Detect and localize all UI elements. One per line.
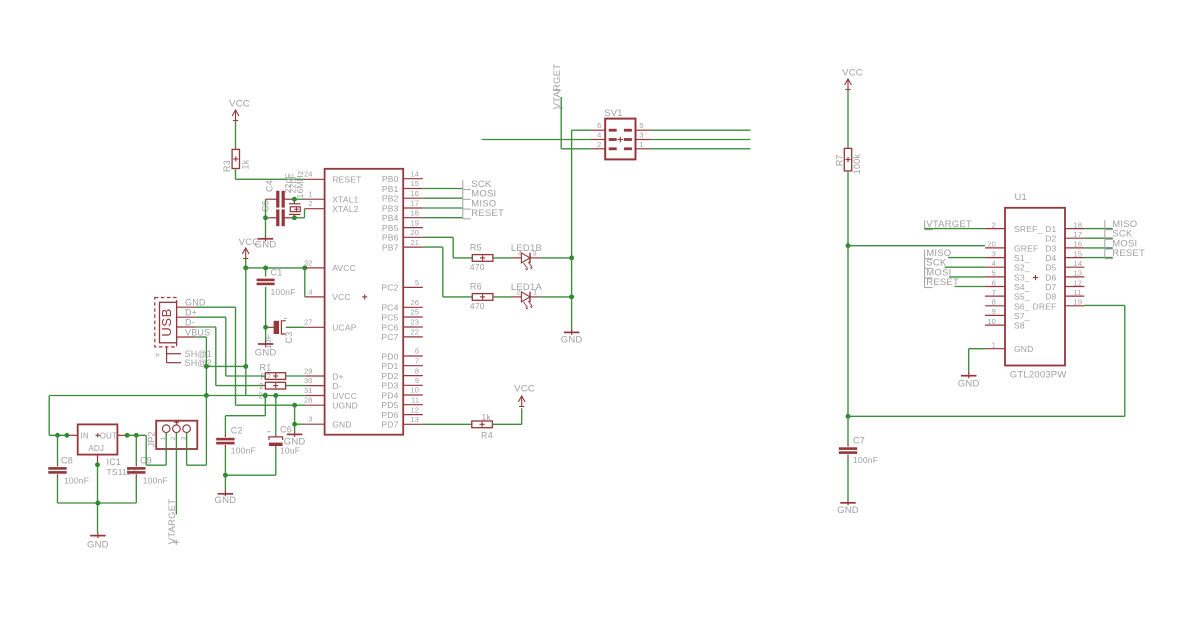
svg-text:RESET: RESET — [332, 175, 361, 185]
wire UGND row — [236, 404, 306, 406]
svg-text:USB: USB — [159, 308, 174, 337]
svg-text:S4_: S4_ — [1014, 282, 1030, 292]
svg-text:GND: GND — [255, 347, 277, 358]
svg-text:12: 12 — [1074, 278, 1083, 287]
wire SV1 pin4 row — [482, 139, 591, 141]
svg-text:21: 21 — [410, 238, 419, 247]
svg-text:3: 3 — [533, 250, 537, 257]
svg-text:IC1: IC1 — [107, 457, 122, 467]
svg-text:24: 24 — [304, 170, 313, 179]
svg-text:S7_: S7_ — [1014, 311, 1030, 321]
svg-text:PC6: PC6 — [381, 322, 398, 332]
svg-text:PC5: PC5 — [381, 312, 398, 322]
ground — [255, 341, 277, 358]
resistor R1 label — [260, 362, 272, 372]
svg-text:16: 16 — [1074, 240, 1083, 249]
junction — [263, 215, 268, 220]
wire UVCC long row — [49, 395, 305, 397]
svg-text:5: 5 — [992, 269, 996, 278]
svg-text:D5: D5 — [1045, 263, 1056, 273]
svg-text:RESET: RESET — [471, 208, 504, 219]
wire + net label MISO — [423, 199, 497, 210]
ground — [255, 236, 277, 251]
svg-text:PD4: PD4 — [381, 390, 398, 400]
voltage regulator IC1 — [68, 424, 136, 476]
svg-text:10: 10 — [410, 386, 419, 395]
svg-text:4: 4 — [597, 131, 601, 140]
svg-text:28: 28 — [304, 396, 313, 405]
wire SV1 pin6 gnd — [572, 129, 591, 131]
svg-text:D-: D- — [185, 317, 195, 327]
svg-text:4: 4 — [308, 287, 312, 296]
svg-text:R4: R4 — [481, 431, 493, 441]
ground — [958, 373, 980, 390]
svg-text:1k: 1k — [240, 159, 250, 169]
resistor R5 — [470, 243, 493, 273]
svg-text:D3: D3 — [1045, 243, 1056, 253]
svg-text:XTAL1: XTAL1 — [332, 195, 358, 205]
svg-text:14: 14 — [1074, 259, 1083, 268]
svg-text:ADJ: ADJ — [88, 444, 104, 453]
svg-text:19: 19 — [1074, 298, 1083, 307]
svg-text:VCC: VCC — [239, 237, 260, 248]
svg-text:10: 10 — [987, 317, 996, 326]
svg-text:PD5: PD5 — [381, 400, 398, 410]
resistor R6 — [470, 282, 493, 312]
svg-text:3: 3 — [639, 131, 643, 140]
wire — [245, 259, 247, 268]
svg-text:13: 13 — [410, 415, 419, 424]
wire VBUS to regulator — [49, 396, 68, 436]
svg-text:1: 1 — [639, 140, 643, 149]
svg-text:PD7: PD7 — [381, 420, 398, 430]
wire XTAL1 net — [294, 198, 305, 200]
junction — [125, 433, 130, 438]
svg-text:S5_: S5_ — [1014, 292, 1030, 302]
svg-text:11: 11 — [1074, 288, 1082, 297]
resistor R3 — [222, 149, 251, 172]
svg-text:PB4: PB4 — [382, 213, 399, 223]
svg-text:PC4: PC4 — [381, 303, 398, 313]
wire C2-C6 gnd — [225, 474, 275, 476]
svg-text:D2: D2 — [1045, 234, 1056, 244]
svg-text:SV1: SV1 — [604, 108, 623, 119]
svg-text:10uF: 10uF — [280, 446, 300, 456]
ground — [284, 431, 306, 447]
svg-text:15: 15 — [1074, 249, 1083, 258]
wire + net label MISO (U1 right) — [1084, 219, 1137, 230]
wire VBUS from USB — [196, 337, 207, 396]
svg-text:RESET: RESET — [1112, 248, 1145, 259]
junction — [263, 265, 268, 270]
svg-text:2: 2 — [259, 382, 264, 391]
junction — [243, 364, 248, 369]
junction — [263, 393, 268, 398]
wire SV1 pin5 — [651, 129, 751, 131]
wire OUT to JP2 pin1 — [127, 435, 166, 465]
svg-text:S3_: S3_ — [1014, 272, 1030, 282]
svg-text:16: 16 — [410, 189, 419, 198]
wire GREF row — [848, 245, 985, 247]
svg-text:4: 4 — [992, 259, 996, 268]
svg-text:D+: D+ — [185, 308, 197, 318]
junction — [204, 393, 209, 398]
supply VCC (R4) — [514, 383, 535, 406]
net label MISO (U1) — [925, 248, 986, 259]
capacitor C2 — [216, 396, 265, 476]
wire R7 down — [847, 171, 849, 444]
svg-text:20: 20 — [410, 228, 419, 237]
svg-text:OUT: OUT — [100, 431, 118, 440]
wire — [847, 90, 849, 149]
junction — [204, 364, 209, 369]
wire RESET net — [236, 169, 306, 180]
svg-text:8: 8 — [415, 366, 419, 375]
wire D- row — [216, 385, 266, 387]
svg-text:C1: C1 — [271, 268, 283, 278]
junction — [64, 433, 69, 438]
ground — [87, 533, 109, 551]
svg-text:PB2: PB2 — [382, 194, 399, 204]
svg-text:29: 29 — [304, 366, 313, 375]
capacitor C5 — [261, 200, 295, 226]
wire UCAP net — [286, 326, 306, 328]
IC microcontroller ATmega8U2 with pins — [304, 169, 423, 435]
capacitor C1 — [257, 268, 296, 328]
wire XTAL2 net — [294, 209, 305, 218]
svg-text:D8: D8 — [1045, 292, 1056, 302]
wire U1 GND — [969, 349, 985, 374]
svg-text:GND: GND — [185, 298, 206, 308]
svg-text:4: 4 — [518, 250, 522, 257]
wire — [286, 385, 306, 387]
svg-text:20: 20 — [987, 240, 996, 249]
capacitor C8 — [48, 435, 89, 503]
wire JP2 pin3 to VBUS — [187, 396, 207, 466]
wire — [540, 257, 572, 259]
IC U1 GTL2003PW — [985, 192, 1084, 381]
svg-text:JP2: JP2 — [147, 431, 157, 447]
junction — [55, 433, 60, 438]
svg-text:1: 1 — [992, 341, 996, 350]
svg-text:7: 7 — [992, 288, 996, 297]
svg-text:13: 13 — [1074, 269, 1083, 278]
svg-text:100nF: 100nF — [64, 475, 89, 485]
svg-text:D+: D+ — [332, 371, 344, 381]
svg-text:3: 3 — [308, 415, 312, 424]
svg-text:GND: GND — [561, 335, 583, 346]
wire GND from USB — [196, 307, 236, 405]
jumper JP2 — [147, 420, 198, 466]
svg-text:R6: R6 — [470, 282, 482, 292]
svg-text:22: 22 — [410, 328, 419, 337]
resistor R1b — [265, 382, 285, 389]
capacitor C4 — [264, 180, 294, 208]
wire PB7 to R6 — [423, 247, 473, 297]
svg-text:VCC: VCC — [514, 383, 535, 394]
svg-text:PB6: PB6 — [382, 233, 399, 243]
supply VCC (AVCC) — [239, 237, 260, 258]
svg-text:C4: C4 — [264, 180, 274, 192]
pin header SV1 — [591, 108, 651, 159]
svg-text:C7: C7 — [853, 436, 865, 446]
svg-text:PB0: PB0 — [382, 174, 399, 184]
wire — [493, 296, 512, 298]
crystal Q1 — [289, 171, 305, 218]
wire R4 to VCC — [492, 408, 521, 424]
junction — [223, 473, 228, 478]
svg-text:D1: D1 — [1045, 224, 1056, 234]
svg-text:100nF: 100nF — [231, 446, 256, 456]
svg-text:D4: D4 — [1045, 253, 1056, 263]
net label VTARGET (top) — [552, 64, 564, 111]
wire AVCC row — [246, 267, 306, 269]
svg-text:17: 17 — [410, 199, 419, 208]
svg-text:2: 2 — [517, 289, 521, 296]
ground — [215, 491, 237, 506]
svg-text:2: 2 — [992, 220, 996, 229]
svg-text:9: 9 — [415, 376, 419, 385]
svg-text:C2: C2 — [231, 426, 243, 436]
svg-text:VCC: VCC — [332, 292, 351, 302]
svg-text:GND: GND — [837, 505, 859, 516]
wire D+ from USB — [196, 317, 226, 376]
wire D- from USB — [196, 327, 216, 386]
svg-text:VCC: VCC — [842, 68, 863, 79]
wire ADJ to gnd — [97, 462, 99, 533]
svg-text:DREF: DREF — [1033, 301, 1057, 311]
net label RESET (U1) — [925, 277, 986, 288]
svg-text:S6_: S6_ — [1014, 301, 1030, 311]
wire + net label MOSI — [423, 189, 497, 200]
net label VTARGET (U1) — [925, 219, 986, 230]
net label SCK (U1) — [925, 258, 986, 269]
svg-text:31: 31 — [304, 386, 313, 395]
svg-text:7: 7 — [415, 356, 419, 365]
svg-text:14: 14 — [410, 169, 419, 178]
svg-text:PC7: PC7 — [381, 332, 398, 342]
svg-text:6: 6 — [415, 347, 419, 356]
svg-text:GREF: GREF — [1014, 243, 1038, 253]
svg-text:U1: U1 — [1015, 192, 1028, 203]
junction — [846, 414, 851, 419]
svg-text:11: 11 — [411, 395, 419, 404]
wire SV1 pin1 — [651, 148, 751, 150]
wire VCC pin — [304, 268, 307, 297]
svg-text:1k: 1k — [482, 412, 492, 422]
svg-text:PD6: PD6 — [381, 410, 398, 420]
wire VBUS-VCC link — [206, 365, 245, 367]
svg-text:26: 26 — [410, 298, 419, 307]
svg-text:PB5: PB5 — [382, 223, 399, 233]
LED LED1B — [511, 243, 542, 270]
svg-text:PB3: PB3 — [382, 203, 399, 213]
resistor R2 hidden label — [259, 373, 272, 401]
wire gnd rail — [58, 502, 137, 504]
resistor R1a — [265, 373, 285, 380]
svg-text:»: » — [155, 350, 160, 359]
svg-text:100nF: 100nF — [271, 287, 296, 297]
svg-text:D6: D6 — [1045, 272, 1056, 282]
junction — [243, 265, 248, 270]
wire to gnd — [224, 475, 226, 491]
svg-text:100nF: 100nF — [143, 475, 168, 485]
junction — [569, 255, 574, 260]
svg-text:100k: 100k — [852, 154, 862, 175]
wire + net label RESET (U1 right) — [1084, 248, 1145, 259]
svg-text:GND: GND — [87, 539, 109, 550]
svg-text:3: 3 — [992, 249, 996, 258]
svg-text:UGND: UGND — [332, 401, 358, 411]
svg-text:100nF: 100nF — [853, 455, 878, 465]
svg-text:GTL2003PW: GTL2003PW — [1010, 370, 1067, 381]
resistor R4 — [472, 412, 493, 440]
junction — [292, 403, 297, 408]
svg-text:GND: GND — [332, 420, 352, 430]
junction — [95, 501, 100, 506]
net label VTARGET — [167, 499, 179, 545]
svg-text:S8: S8 — [1014, 321, 1025, 331]
wire + net label RESET — [423, 208, 504, 219]
junction — [95, 462, 100, 467]
wire + net label MOSI (U1 right) — [1084, 238, 1137, 249]
value 22pF labels — [283, 173, 297, 193]
junction — [292, 422, 297, 427]
wire — [235, 121, 237, 150]
svg-text:PC2: PC2 — [381, 283, 398, 293]
svg-text:R7: R7 — [835, 154, 845, 166]
svg-text:AVCC: AVCC — [332, 263, 356, 273]
wire to gnd — [265, 327, 267, 342]
junction — [263, 325, 268, 330]
svg-text:27: 27 — [304, 318, 313, 327]
svg-text:470: 470 — [470, 262, 485, 272]
svg-text:GND: GND — [1014, 344, 1034, 354]
svg-text:RESET: RESET — [926, 277, 959, 288]
svg-text:UCAP: UCAP — [332, 323, 357, 333]
svg-text:5: 5 — [415, 278, 419, 287]
junction — [569, 294, 574, 299]
wire PB6 to R5 — [423, 237, 473, 258]
wire VTARGET out — [175, 466, 177, 515]
junction — [292, 215, 297, 220]
svg-text:C6: C6 — [280, 425, 292, 435]
svg-text:S1_: S1_ — [1014, 253, 1030, 263]
svg-text:PD2: PD2 — [381, 371, 398, 381]
svg-text:17: 17 — [1074, 230, 1083, 239]
wire + net label SCK (U1 right) — [1084, 229, 1132, 240]
resistor R7 — [835, 148, 863, 174]
wire GND pin — [295, 405, 306, 432]
svg-text:12: 12 — [410, 405, 419, 414]
capacitor C6 (polarized) — [267, 396, 300, 476]
svg-text:IN: IN — [81, 431, 89, 440]
svg-text:1: 1 — [308, 190, 312, 199]
junction — [292, 197, 297, 202]
junction — [273, 393, 278, 398]
svg-text:9: 9 — [992, 307, 996, 316]
svg-text:R5: R5 — [470, 243, 482, 253]
svg-text:6: 6 — [597, 121, 601, 130]
junction — [846, 243, 851, 248]
wire PD7 to R4 — [423, 423, 472, 425]
junction — [302, 265, 307, 270]
wire VCC vertical — [245, 268, 247, 396]
svg-text:SREF_: SREF_ — [1014, 224, 1042, 234]
svg-text:32: 32 — [304, 258, 313, 267]
capacitor C3 — [263, 319, 294, 350]
supply VCC (reset pull-up) — [229, 98, 250, 120]
svg-text:VTARGET: VTARGET — [167, 499, 178, 545]
svg-text:470: 470 — [470, 301, 485, 311]
wire DREF return — [848, 305, 1125, 416]
junction — [134, 433, 139, 438]
wire LED gnd — [571, 130, 573, 330]
svg-text:VBUS: VBUS — [185, 327, 210, 337]
svg-text:PD3: PD3 — [381, 381, 398, 391]
svg-text:XTAL2: XTAL2 — [332, 204, 358, 214]
USB connector X1 — [155, 298, 212, 368]
svg-text:8: 8 — [992, 298, 996, 307]
svg-text:UVCC: UVCC — [332, 391, 357, 401]
LED LED1A — [511, 282, 543, 310]
svg-text:GND: GND — [958, 378, 980, 389]
ground — [561, 329, 583, 345]
wire — [286, 375, 306, 377]
wire — [493, 257, 512, 259]
svg-text:2: 2 — [308, 199, 312, 208]
svg-text:VCC: VCC — [229, 98, 250, 109]
wire D+ row — [226, 375, 266, 377]
svg-text:30: 30 — [304, 376, 313, 385]
svg-text:1: 1 — [533, 289, 537, 296]
svg-text:5: 5 — [639, 121, 643, 130]
wire cap gnd — [265, 199, 267, 236]
wire VTARGET to SV1 pin2 — [561, 97, 591, 149]
net label MOSI (U1) — [925, 267, 986, 278]
wire + net label SCK — [423, 179, 492, 190]
svg-text:C8: C8 — [61, 455, 73, 465]
svg-text:R3: R3 — [222, 160, 232, 172]
supply VCC (right) — [842, 68, 863, 90]
svg-text:R1: R1 — [260, 362, 272, 372]
svg-text:PD1: PD1 — [381, 361, 398, 371]
capacitor C9 — [127, 435, 168, 503]
svg-text:S2_: S2_ — [1014, 263, 1030, 273]
svg-text:PB7: PB7 — [382, 242, 399, 252]
svg-text:D7: D7 — [1045, 282, 1056, 292]
svg-text:18: 18 — [410, 208, 419, 217]
svg-text:6: 6 — [992, 278, 996, 287]
svg-text:25: 25 — [410, 308, 419, 317]
wire — [540, 296, 572, 298]
svg-text:PB1: PB1 — [382, 184, 399, 194]
capacitor C7 — [839, 436, 878, 501]
svg-text:23: 23 — [410, 318, 419, 327]
svg-text:15: 15 — [410, 179, 419, 188]
svg-text:18: 18 — [1074, 220, 1083, 229]
ground — [837, 500, 859, 516]
svg-text:LED1B: LED1B — [511, 243, 542, 254]
svg-text:C3: C3 — [284, 332, 294, 344]
svg-text:GND: GND — [215, 495, 237, 506]
svg-text:PD0: PD0 — [381, 351, 398, 361]
svg-text:19: 19 — [410, 218, 419, 227]
svg-text:2: 2 — [597, 140, 601, 149]
wire SV1 pin3 — [651, 139, 751, 141]
svg-text:D-: D- — [332, 381, 341, 391]
